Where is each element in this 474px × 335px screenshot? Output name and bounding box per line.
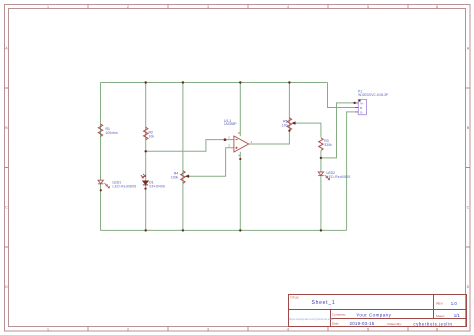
junction connector pin1 <box>353 102 355 104</box>
resistor R2 <box>144 127 155 140</box>
svg-text:TITLE:: TITLE: <box>290 296 299 300</box>
wire node to connector pin1 <box>321 103 355 158</box>
svg-text:100: 100 <box>282 123 288 127</box>
junction top bus at R2 <box>145 81 147 83</box>
svg-text:LED-Red0805: LED-Red0805 <box>327 175 351 179</box>
LED LED1 <box>98 180 136 191</box>
wire op-amp V- to ground bus <box>239 152 241 231</box>
svg-text:Date:: Date: <box>332 321 340 325</box>
svg-text:2: 2 <box>127 5 129 9</box>
potentiometer R5 <box>282 118 296 131</box>
junction bottom bus at LED2 <box>320 229 322 231</box>
wire connector pin3 to ground bus <box>347 112 355 230</box>
junction bottom bus at R4 <box>182 229 184 231</box>
svg-text:10k: 10k <box>149 134 155 138</box>
wire branch R2/D1 <box>145 83 147 231</box>
junction bottom bus at D1 <box>145 229 147 231</box>
junction op-amp inverting input <box>224 139 226 141</box>
svg-text:V+: V+ <box>360 101 364 105</box>
svg-text:LM358P: LM358P <box>224 122 237 126</box>
svg-text:cyberbots.jeslin: cyberbots.jeslin <box>413 322 452 327</box>
potentiometer R4 <box>171 171 190 184</box>
wire op-amp V+ supply <box>239 83 241 137</box>
svg-text:330k: 330k <box>324 143 332 147</box>
LED1 cathode pin dot <box>100 189 102 191</box>
junction R5 bottom pin <box>288 130 290 132</box>
U1 triangle body <box>234 136 249 152</box>
svg-text:1: 1 <box>47 5 49 9</box>
svg-text:Drawn By:: Drawn By: <box>388 322 402 326</box>
svg-text:LED-Red0805: LED-Red0805 <box>113 184 137 188</box>
wire top bus to connector pin2 <box>328 83 355 108</box>
svg-text:Sheet_1: Sheet_1 <box>312 300 336 306</box>
svg-text:100k: 100k <box>171 175 179 179</box>
P1 pin stubs 1,2,3 <box>355 103 359 112</box>
svg-text:5: 5 <box>367 327 369 331</box>
svg-text:1: 1 <box>47 327 49 331</box>
svg-text:5: 5 <box>367 5 369 9</box>
R4 wiper arrow <box>186 175 190 177</box>
wire non-inverting input <box>187 148 234 176</box>
svg-text:https://easyeda.com/cyberbots.: https://easyeda.com/cyberbots.jeslin <box>289 317 335 321</box>
svg-text:REV:: REV: <box>436 302 443 306</box>
svg-text:6: 6 <box>436 327 438 331</box>
svg-text:Sheet:: Sheet: <box>436 314 445 318</box>
U1 inverting input minus mark <box>235 139 237 141</box>
junction inverting input at R2 branch <box>145 150 147 152</box>
resistor R3 <box>319 138 332 151</box>
title block <box>289 295 467 327</box>
wire branch R4 <box>182 83 184 231</box>
svg-text:Company:: Company: <box>332 313 346 317</box>
svg-text:D: D <box>5 285 8 289</box>
svg-text:WJ2EDGVC-5.08-3P: WJ2EDGVC-5.08-3P <box>358 93 388 97</box>
svg-text:SFH0406: SFH0406 <box>149 184 165 188</box>
junction top bus at R4 <box>182 81 184 83</box>
photodiode D1 <box>141 174 165 190</box>
svg-text:R1: R1 <box>106 127 110 131</box>
svg-text:Your Company: Your Company <box>356 312 391 317</box>
svg-text:C: C <box>467 206 470 210</box>
R5 wiper arrow <box>292 122 296 124</box>
junction top bus at R5 <box>288 81 290 83</box>
svg-text:1.0: 1.0 <box>451 301 458 306</box>
P1 pin-1 polarity mark <box>359 100 361 102</box>
junction op-amp V- pin <box>239 158 241 160</box>
junction R3 LED2 node <box>320 157 322 159</box>
connector P1 <box>355 89 388 114</box>
svg-text:3: 3 <box>207 327 209 331</box>
P1 body <box>358 99 366 114</box>
svg-text:D: D <box>467 285 470 289</box>
svg-text:4: 4 <box>287 5 289 9</box>
op-amp U1.1 LM358P <box>224 119 253 158</box>
wire bottom bus <box>101 229 347 231</box>
LED LED2 <box>318 171 350 180</box>
svg-text:2019-03-15: 2019-03-15 <box>350 321 375 326</box>
wire left branch R1/LED1 <box>100 83 102 231</box>
svg-text:2: 2 <box>127 327 129 331</box>
wire op-amp output to R5 <box>249 83 290 145</box>
svg-text:6: 6 <box>436 5 438 9</box>
junction top bus at op-amp <box>239 81 241 83</box>
svg-text:G-: G- <box>360 110 363 114</box>
svg-text:1/1: 1/1 <box>454 313 461 318</box>
svg-text:100ohm: 100ohm <box>106 131 118 135</box>
wire R3 to LED2 chain <box>320 151 322 231</box>
wire inverting input <box>146 140 234 152</box>
svg-text:B: B <box>360 106 362 110</box>
wire R5 wiper to R3 <box>293 123 321 137</box>
junction bottom bus at op-amp <box>239 229 241 231</box>
D1 cathode pin dot <box>144 188 146 190</box>
resistor R1 <box>98 124 118 137</box>
U1 non-inverting input plus mark <box>235 147 237 149</box>
wire top bus <box>101 82 328 84</box>
svg-text:3: 3 <box>207 5 209 9</box>
svg-text:C: C <box>5 206 8 210</box>
svg-text:4: 4 <box>287 327 289 331</box>
